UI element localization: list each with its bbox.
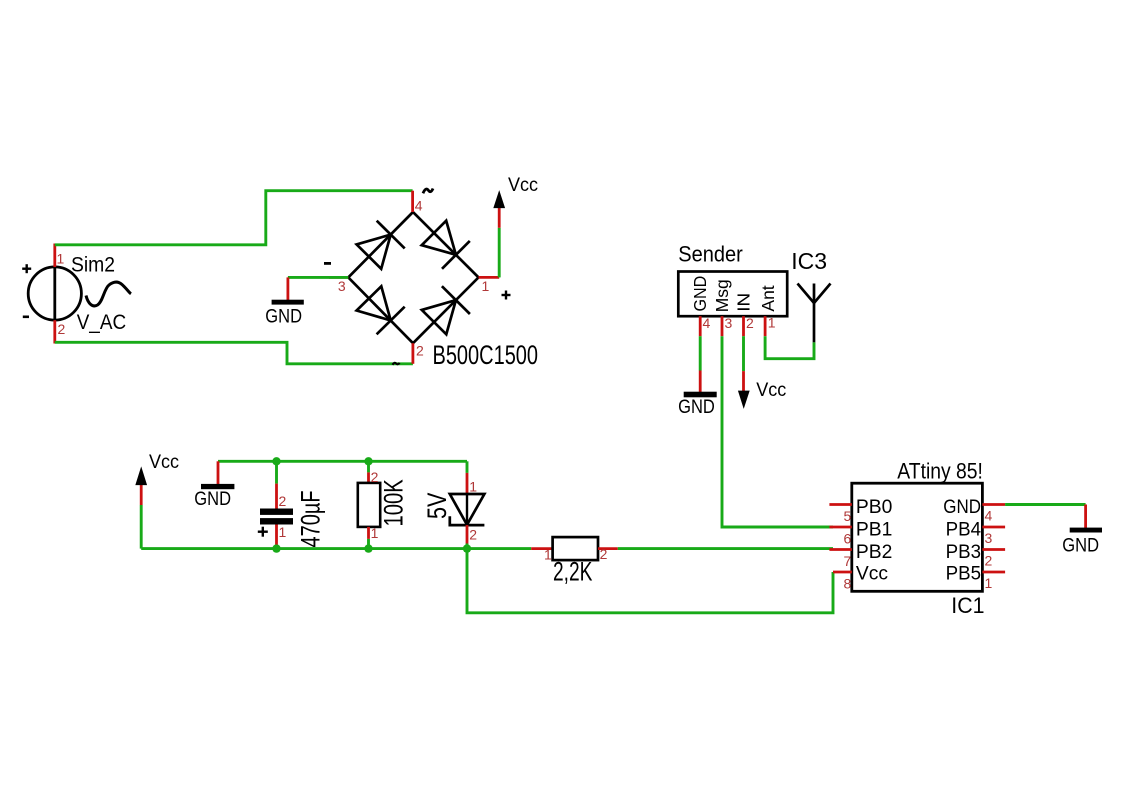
junction dot top rail at 100K	[364, 457, 372, 465]
bridge pin 3 stub	[329, 276, 348, 279]
bridge diode D-TL	[357, 221, 405, 269]
svg-text:ATtiny 85!: ATtiny 85!	[897, 459, 983, 484]
bridge minus mark	[324, 262, 331, 265]
wire 2,2K to ATtiny PB2	[618, 547, 833, 550]
wire IC1 GND pin to GND4	[1005, 503, 1086, 506]
svg-text:1: 1	[469, 479, 477, 495]
IC1 pin 6 stub	[829, 526, 851, 529]
wire AC pin2 to bridge pin2	[55, 342, 413, 364]
svg-text:Ant: Ant	[758, 285, 778, 311]
svg-text:1: 1	[768, 315, 776, 331]
wire bridge pin3 to GND1	[288, 276, 348, 279]
zener diode Z1 5V	[450, 461, 485, 548]
svg-text:2: 2	[279, 493, 287, 509]
svg-text:4: 4	[703, 315, 711, 331]
AC source sine symbol	[86, 282, 131, 306]
svg-text:Sim2: Sim2	[71, 253, 115, 277]
svg-text:8: 8	[844, 576, 852, 592]
Sender pin 3 stub	[721, 316, 724, 336]
bridge pin 4 stub	[411, 191, 414, 212]
bridge pin 1 stub	[479, 276, 500, 279]
antenna IC3	[798, 284, 831, 343]
wire Sender pin4 to GND3	[699, 336, 702, 370]
svg-text:V_AC: V_AC	[77, 311, 126, 334]
svg-text:GND: GND	[943, 496, 981, 517]
svg-text:Vcc: Vcc	[756, 379, 786, 401]
svg-text:GND: GND	[265, 306, 302, 327]
svg-text:6: 6	[844, 531, 852, 547]
IC1 pin 4 stub (GND)	[982, 503, 1005, 506]
svg-text:GND: GND	[690, 276, 710, 312]
wire Sender pin3 Msg to ATtiny PB1	[722, 336, 833, 527]
svg-text:Msg: Msg	[712, 279, 732, 312]
svg-text:3: 3	[725, 315, 733, 331]
supply Vcc1 (bridge)	[494, 173, 538, 227]
bridge tilde top	[423, 189, 433, 194]
svg-text:2: 2	[371, 469, 379, 485]
bridge diode D-TR	[422, 221, 470, 269]
bridge tilde bottom	[393, 363, 400, 365]
svg-text:Vcc: Vcc	[508, 173, 538, 195]
IC1 pin 7 stub	[829, 548, 851, 551]
IC1 pin 2 stub (PB3)	[982, 548, 1005, 551]
IC1 pin 5 stub	[829, 503, 851, 506]
resistor R1 100K	[358, 461, 380, 548]
capacitor C1 470uF	[260, 461, 293, 548]
junction dot bottom rail at zener	[463, 544, 471, 552]
IC1 pin 3 stub (PB4)	[982, 526, 1005, 529]
bridge pin 2 stub	[411, 343, 414, 364]
ground GND1 (bridge)	[265, 277, 304, 326]
AC source pin 2 stub	[53, 320, 56, 343]
svg-text:Vcc: Vcc	[856, 564, 889, 585]
AC source plus mark	[22, 264, 31, 273]
svg-text:2: 2	[416, 343, 424, 359]
wire top rail (GND2 to zener top)	[218, 460, 467, 463]
svg-text:2,2K: 2,2K	[553, 556, 593, 586]
wire AC pin1 to bridge pin4	[55, 191, 413, 245]
IC1 ATtiny box	[852, 483, 983, 591]
svg-text:5V: 5V	[423, 492, 453, 519]
junction dot bottom rail at capacitor	[272, 544, 280, 552]
svg-text:2: 2	[600, 546, 608, 562]
svg-text:3: 3	[985, 530, 993, 546]
wire Sender pin1 Ant to antenna	[765, 336, 814, 359]
Sender pin 2 stub	[742, 316, 745, 336]
svg-text:1: 1	[985, 575, 993, 591]
supply Vcc3 (down arrow)	[739, 371, 787, 407]
svg-text:B500C1500: B500C1500	[433, 340, 539, 371]
svg-text:1: 1	[371, 525, 379, 541]
wire bottom rail (Vcc2 to 2,2K)	[141, 547, 531, 550]
junction dot bottom rail at 100K	[364, 544, 372, 552]
capacitor C1 plus mark	[258, 527, 268, 537]
svg-text:4: 4	[985, 508, 993, 524]
svg-text:1: 1	[279, 524, 287, 540]
svg-text:IN: IN	[734, 293, 753, 312]
svg-text:PB5: PB5	[946, 563, 981, 584]
svg-text:PB2: PB2	[856, 542, 892, 563]
svg-text:2: 2	[469, 526, 477, 542]
AC source V1 circle	[28, 267, 81, 320]
ground GND3 (Sender)	[678, 371, 717, 418]
svg-text:5: 5	[844, 508, 852, 524]
ground GND4 (right)	[1062, 505, 1102, 556]
wire bridge pin1 to Vcc1	[498, 228, 501, 278]
svg-text:2: 2	[985, 553, 993, 569]
svg-text:2: 2	[58, 321, 66, 337]
wire Sender pin2 to Vcc3	[742, 336, 745, 371]
svg-text:PB0: PB0	[856, 497, 892, 518]
svg-text:100K: 100K	[379, 479, 410, 526]
Sender pin 1 stub	[764, 316, 767, 336]
IC1 pin 1 stub (PB5)	[982, 571, 1005, 574]
IC1 pin 8 stub	[833, 571, 852, 574]
bridge diode D-BR	[422, 286, 470, 334]
svg-text:3: 3	[338, 278, 346, 294]
svg-text:PB4: PB4	[946, 519, 982, 540]
AC source minus mark	[23, 315, 29, 318]
resistor R2 2,2K	[531, 537, 618, 560]
svg-text:7: 7	[844, 553, 852, 569]
svg-text:1: 1	[544, 547, 552, 563]
bridge diode D-BL	[357, 286, 405, 334]
svg-text:470µF: 470µF	[296, 490, 327, 547]
supply Vcc2 (left arrow)	[136, 451, 179, 549]
svg-text:1: 1	[57, 251, 65, 267]
Sender pin 4 stub	[699, 316, 702, 336]
svg-text:PB1: PB1	[856, 520, 892, 541]
svg-text:GND: GND	[1062, 534, 1099, 555]
svg-text:Sender: Sender	[678, 243, 743, 267]
Sender box U2	[678, 272, 787, 317]
svg-text:GND: GND	[194, 488, 231, 509]
AC source pin 1 stub	[53, 244, 56, 268]
svg-text:PB3: PB3	[946, 542, 981, 563]
junction dot top rail at capacitor	[272, 457, 280, 465]
bridge B1 diamond edges	[348, 212, 478, 343]
bridge plus mark	[502, 291, 511, 300]
svg-text:1: 1	[482, 278, 490, 294]
svg-text:Vcc: Vcc	[149, 451, 179, 473]
ground GND2 (top rail)	[194, 461, 234, 509]
svg-text:IC3: IC3	[791, 248, 827, 274]
svg-text:GND: GND	[678, 396, 715, 417]
svg-text:IC1: IC1	[951, 592, 984, 618]
wire zener junction down to ATtiny Vcc pin 8	[467, 549, 833, 613]
svg-text:4: 4	[415, 198, 423, 214]
svg-text:2: 2	[746, 315, 754, 331]
